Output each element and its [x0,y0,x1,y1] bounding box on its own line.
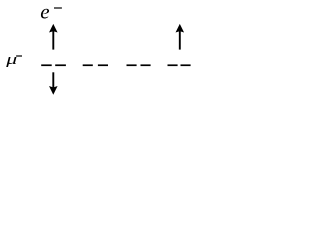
svg-text:μ: μ [5,51,17,68]
energy level 3 dash a [127,64,137,66]
arrow down (muon spin) under level 1 [50,72,57,93]
superscript minus of e [54,7,62,8]
energy level 1 dash a [41,64,52,66]
energy level 4 dash a [168,64,178,66]
superscript minus of mu [16,55,22,56]
svg-text:e: e [40,0,49,24]
energy level 4 dash b [181,64,191,66]
arrow up (spin) over level 4 [177,25,184,50]
energy level 2 dash a [83,64,93,66]
energy level 2 dash b [98,64,108,66]
energy level 1 dash b [55,64,66,66]
energy level 3 dash b [141,64,151,66]
arrow up (electron spin) over level 1 [50,25,57,50]
